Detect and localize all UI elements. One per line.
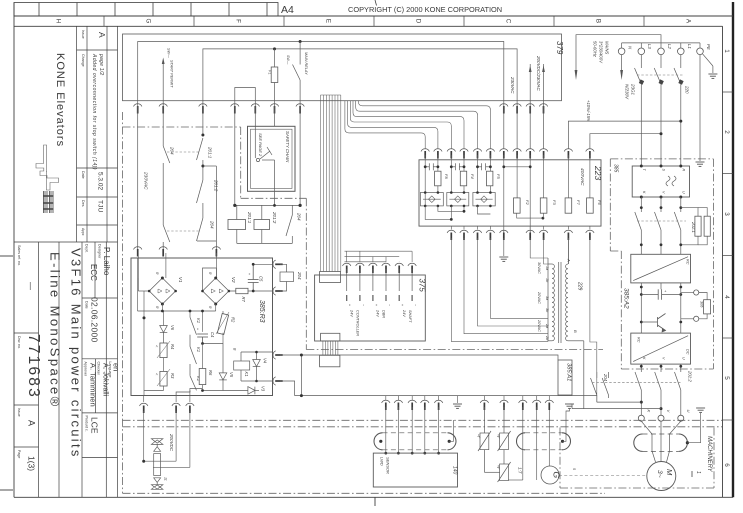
wires to pin row right [530,64,543,101]
shaft terminal row [140,400,554,413]
svg-text:23G1: 23G1 [631,83,636,96]
title block grid [14,26,118,497]
controller supply unit 375 [315,275,426,341]
svg-text:en: en [112,363,121,371]
wires into R3 [138,253,216,278]
svg-text:385:A1: 385:A1 [566,363,572,381]
svg-text:RC: RC [686,259,690,265]
svg-text:771683: 771683 [25,334,42,399]
svg-text:3~: 3~ [656,470,663,478]
title block texts [17,244,121,471]
svg-text:A4: A4 [281,4,294,16]
main switch 220 [635,55,681,84]
svg-text:Designer: Designer [98,244,102,259]
ribbon cable to controller [321,95,341,272]
svg-text:R7: R7 [241,297,246,303]
suppressor capacitors [425,163,530,170]
svg-text:L3: L3 [647,44,652,49]
svg-text:SENSOR: SENSOR [386,457,391,474]
svg-text:200VDC: 200VDC [169,433,174,452]
svg-text:400VAC: 400VAC [579,168,585,186]
thermistor 1 [478,407,491,462]
dc link capacitor [641,289,681,299]
svg-text:G: G [145,19,152,24]
svg-text:SW—: SW— [167,48,171,58]
svg-text:K1: K1 [196,318,201,323]
svg-text:Issue: Issue [17,408,21,417]
zone letters H..A [55,19,692,24]
motor terminals K V U [638,415,684,421]
diode V3 [223,387,259,395]
wire top bus 2 [203,49,517,101]
svg-text:A: A [567,258,572,262]
svg-text:1(3): 1(3) [27,456,37,471]
svg-text:201:2: 201:2 [214,179,219,192]
earth below filter [503,238,505,256]
svg-text:24V: 24V [402,309,406,317]
svg-text:A. Tamminen: A. Tamminen [89,363,98,407]
svg-text:L2: L2 [667,44,672,49]
LWD cable screen [374,433,456,450]
svg-text:306: 306 [700,301,704,308]
rectifier bridge V1 [138,278,175,304]
svg-text:V3F16 Main power circuits: V3F16 Main power circuits [69,248,84,459]
thermistor 3 [484,462,510,482]
junction node [299,40,302,43]
svg-text:RC: RC [637,337,641,343]
feed comb above 375 [345,251,413,262]
revision table texts [81,30,107,236]
hoisting motor [647,462,676,491]
F2 return [517,213,543,218]
module corner nodes [424,191,492,207]
diode V4 [253,352,261,381]
KONE Elevators logotype [54,53,66,147]
phase drops [641,84,681,166]
RFI choke unit [632,166,689,197]
svg-text:A. Jokivalli: A. Jokivalli [102,363,109,397]
svg-text:201:1: 201:1 [208,146,213,159]
svg-text:24V: 24V [376,309,380,317]
damping resistors [681,208,698,217]
svg-text:P. Laiho: P. Laiho [102,247,111,276]
brake transistor [641,314,665,332]
svg-text:Produkt c.: Produkt c. [85,416,89,432]
svg-text:50-60Hz: 50-60Hz [593,41,598,58]
varistor R2 [217,313,228,334]
svg-text:1a: 1a [545,266,549,270]
svg-text:E-line MonoSpace®: E-line MonoSpace® [48,252,63,409]
start permit page arrow [162,63,164,101]
svg-text:ECC: ECC [89,264,98,281]
svg-text:Added overconnection for stop: Added overconnection for stop switch (14… [91,53,97,170]
wires through row1 [138,101,544,250]
barcode block [43,191,54,213]
left edge centering marks [0,256,375,506]
ribbon connector top [320,272,341,283]
top filing strip cells [14,3,278,17]
tap to F7 [568,121,680,148]
svg-text:CONTROLLER: CONTROLLER [356,310,360,336]
earth return links [425,206,490,220]
svg-text:385:R3: 385:R3 [258,300,265,323]
svg-text:200VDC/230VAC: 200VDC/230VAC [536,55,541,92]
svg-text:Page: Page [17,450,21,458]
svg-text:1: 1 [723,49,730,53]
svg-text:379: 379 [555,41,564,55]
svg-text:Date: Date [85,301,89,309]
svg-text:V2: V2 [231,277,236,283]
brake resistor chain [151,439,163,490]
svg-text:−: − [387,304,391,306]
svg-text:1: 1 [695,471,701,474]
svg-text:N/230V: N/230V [625,84,630,100]
motor cable screen [634,434,688,451]
svg-text:C5: C5 [259,276,264,282]
svg-text:Dept.: Dept. [85,244,89,253]
svg-text:K1: K1 [196,347,201,352]
link wires [572,395,661,409]
svg-text:+: + [400,304,404,306]
svg-text:220: 220 [685,85,690,94]
svg-text:+t°: +t° [496,434,500,439]
svg-text:3b: 3b [545,308,549,312]
svg-text:3*230/400V: 3*230/400V [599,41,604,64]
diode V5 [203,344,227,391]
svg-text:MAIN RELAY: MAIN RELAY [304,52,308,75]
svg-text:Approver: Approver [84,362,88,377]
svg-text:R6: R6 [208,370,213,376]
mains rating label [586,41,610,122]
svg-text:V5: V5 [229,372,234,378]
svg-text:Sales ref. no.: Sales ref. no. [17,245,21,266]
safety switch [255,126,274,205]
svg-text:—: — [26,282,35,290]
svg-text:M: M [665,469,674,476]
svg-text:30VAC: 30VAC [537,262,541,274]
svg-text:Change: Change [81,54,85,67]
svg-text:Language: Language [108,362,112,378]
svg-text:230VAC: 230VAC [510,76,515,94]
svg-text:+t°: +t° [477,434,481,439]
relay coil 201:1 [236,205,238,219]
link stirrup on box edge [235,88,256,101]
relay coil bus [235,204,300,206]
svg-text:201:2: 201:2 [272,211,277,224]
svg-text:Appr.: Appr. [81,228,85,236]
mains feed wires [576,35,700,72]
thermistor 2 [498,407,511,464]
contact 201:1 [197,138,217,241]
svg-text:204: 204 [603,373,608,382]
varistor R4 [160,343,167,358]
svg-text:R4: R4 [170,344,175,350]
svg-text:LCE: LCE [90,417,100,434]
svg-text:KONE Elevators: KONE Elevators [54,53,66,147]
svg-text:G: G [552,472,562,479]
svg-text:F8: F8 [444,174,449,179]
svg-text:MACHINERY: MACHINERY [706,436,712,473]
terminal row below filter [447,230,594,240]
brake module label box 385:A1 [558,360,572,395]
diode V6 [160,326,168,344]
dc link wires [641,283,681,333]
varistor R3 [160,371,167,386]
svg-text:Des.: Des. [81,200,85,207]
coil circuit wires [241,352,273,381]
svg-text:C4: C4 [210,332,215,338]
svg-text:F: F [235,19,242,23]
svg-text:MAINS: MAINS [605,41,610,54]
ribbon connector bottom [320,333,340,367]
svg-text:SW—: SW— [286,55,290,65]
svg-text:Issue: Issue [81,30,85,39]
svg-text:V6: V6 [170,325,175,331]
terminal row below 379 [134,104,548,114]
screen earth [687,413,700,443]
svg-text:2b: 2b [545,335,549,340]
svg-text:page 1/2: page 1/2 [98,53,104,75]
svg-text:+t°: +t° [496,465,500,470]
svg-text:A: A [27,420,37,426]
secondary routes to transformer [451,238,597,402]
svg-text:U: U [682,357,686,360]
svg-text:Drw. no.: Drw. no. [17,336,21,349]
svg-text:229: 229 [577,281,583,291]
svg-text:204: 204 [170,146,175,155]
resistor R7 [229,290,273,292]
terminal row 2 [134,247,221,257]
svg-text:+10%/-15%: +10%/-15% [586,100,591,122]
mains terminals N L3 L2 L1 PE [618,48,703,55]
svg-text:2a: 2a [545,323,549,328]
svg-text:SHAFT: SHAFT [408,310,412,323]
svg-text:385: 385 [613,164,619,173]
terminal row above 375 [343,263,417,273]
nested wire routes to filter [345,101,491,149]
svg-text:385:A2: 385:A2 [623,288,630,309]
bus stubs to terminal row [386,396,550,400]
neutral page arrow [621,55,623,72]
tap to F6 [590,134,661,149]
resistor F2 [514,198,521,213]
svg-text:204: 204 [297,212,302,221]
dashed contact couplers [167,152,199,231]
svg-text:U: U [682,191,686,194]
earth left of machinery [570,403,573,405]
svg-text:204: 204 [297,271,302,280]
svg-text:A: A [97,32,107,38]
page arrow left [575,70,578,80]
svg-text:L1: L1 [687,44,692,49]
KONE flag symbol [36,145,59,190]
svg-text:SEE PAGE 2: SEE PAGE 2 [258,133,263,157]
svg-text:F6: F6 [597,200,602,205]
rectifier bridge V2 [203,268,229,304]
svg-text:R2: R2 [231,317,236,323]
tacho cable screen [517,433,571,450]
junction node [273,47,276,50]
inverter module A2 lower [631,333,691,364]
main relay contact [293,42,301,101]
brake contactor 204 [591,372,609,395]
svg-text:Checker: Checker [97,362,101,376]
varistor module 2 [447,193,469,206]
svg-text:223: 223 [593,165,603,180]
svg-text:5: 5 [572,468,576,470]
svg-text:PE: PE [706,44,711,50]
svg-text:5.3.02: 5.3.02 [97,172,104,190]
transformer 229 [548,238,584,409]
K1 contact 2 [190,347,197,376]
ground near LWD [457,396,459,403]
svg-text:24V: 24V [350,309,354,317]
capacitor C4 [197,334,208,344]
relay coil 201:2 [261,205,263,219]
svg-text:Date: Date [81,171,85,179]
svg-text:+: + [348,304,352,306]
aux relay coil 204 [280,264,294,291]
svg-text:+: + [196,328,200,330]
terminal row above filter 723 [421,149,594,159]
PE to earth [703,54,713,73]
svg-text:6: 6 [723,463,730,467]
svg-text:+: + [247,273,251,275]
power supply box 385:R3 [131,258,273,396]
svg-text:R: R [682,169,686,172]
svg-text:−: − [361,304,365,306]
svg-text:375: 375 [418,279,427,293]
svg-text:204: 204 [210,220,215,229]
tacho generator G [541,466,559,484]
wire top bus 1 [138,42,504,101]
encoder dashed link [559,475,647,477]
svg-text:1b: 1b [545,278,549,282]
svg-text:SAFETY CHAIN: SAFETY CHAIN [285,131,290,163]
left exits from R3 [144,396,190,468]
zone letter band dividers [104,16,644,26]
contact 204 right [237,205,292,243]
svg-text:K1: K1 [244,372,249,377]
svg-text:D: D [415,19,422,24]
fuse F4 [460,171,466,186]
svg-text:11: 11 [164,477,168,481]
svg-text:201:1: 201:1 [247,211,252,224]
resistor R6 [199,369,206,385]
svg-text:−: − [413,304,417,306]
fuse F5 [487,171,493,186]
svg-text:F2: F2 [525,200,530,205]
svg-text:V4: V4 [263,358,268,364]
svg-text:H: H [55,19,62,24]
motor leads with brake contacts [635,364,681,415]
resistor F3 [540,198,547,213]
svg-text:20VAC: 20VAC [537,291,541,304]
varistor module 1 [420,193,443,206]
svg-text:3a: 3a [545,296,549,300]
svg-text:START PERMIT: START PERMIT [170,60,174,88]
svg-text:140: 140 [452,466,458,475]
svg-text:F7: F7 [576,200,581,205]
measuring circles [694,290,699,295]
LWD wires [386,407,454,453]
svg-text:2: 2 [723,130,730,134]
load weighing device box [373,453,457,487]
C5 top feed [253,263,272,265]
capacitor C5 [248,264,259,291]
svg-text:K: K [646,410,651,413]
svg-text:V1: V1 [178,277,183,283]
svg-text:DBR: DBR [382,310,386,318]
svg-text:DC: DC [686,349,690,355]
fuse F8 [435,171,441,186]
K1 contact 3 [176,376,196,396]
main contactor 201:1 [635,197,681,254]
svg-text:4: 4 [723,295,730,299]
svg-text:F5: F5 [496,174,501,179]
svg-text:C: C [505,19,512,24]
svg-text:TJU: TJU [97,200,104,213]
svg-text:5: 5 [723,376,730,380]
output wires right [280,355,597,396]
svg-text:02.06.2000: 02.06.2000 [90,297,100,343]
svg-text:B: B [573,330,578,333]
svg-text:+: + [374,304,378,306]
winding labels [537,262,549,340]
svg-text:B: B [595,19,602,23]
contactor chain: contact 204 [163,146,170,250]
varistor module 3 [473,193,495,206]
filter box 223 [419,160,601,226]
fuse F1 [274,49,276,101]
svg-text:U: U [686,410,691,413]
svg-text:F4: F4 [470,174,475,179]
K1 contact 1 [190,317,197,346]
resistor F6 [587,198,594,213]
svg-text:V3: V3 [261,386,266,392]
svg-text:COPYRIGHT (C) 2000 KONE CORPOR: COPYRIGHT (C) 2000 KONE CORPORATION [348,5,502,14]
resistor F7 [565,198,572,213]
svg-text:3: 3 [723,212,730,216]
svg-text:201:2: 201:2 [688,370,693,382]
375 pin labels [348,304,417,306]
svg-text:LWD: LWD [380,457,385,466]
R3 right-edge terminals [273,260,283,385]
svg-text:230VAC: 230VAC [143,171,149,190]
safety chain box [248,126,296,191]
svg-text:E: E [325,19,332,23]
wires into filter [425,155,590,238]
right zone number band [723,92,734,420]
svg-text:20VAC: 20VAC [537,319,541,332]
brake chopper module A2 upper [631,254,691,283]
internal bus [138,258,224,396]
pins into 375 [347,269,412,301]
relay box 379 [123,34,562,101]
PE conductor down [699,55,701,161]
svg-text:F1: F1 [268,70,272,74]
svg-text:F3: F3 [552,200,557,205]
svg-text:V: V [666,410,671,413]
chassis dash-dot boundaries [123,112,723,493]
motor cable [641,421,681,462]
svg-text:R3: R3 [170,373,175,379]
motor ref 1 [691,471,693,477]
